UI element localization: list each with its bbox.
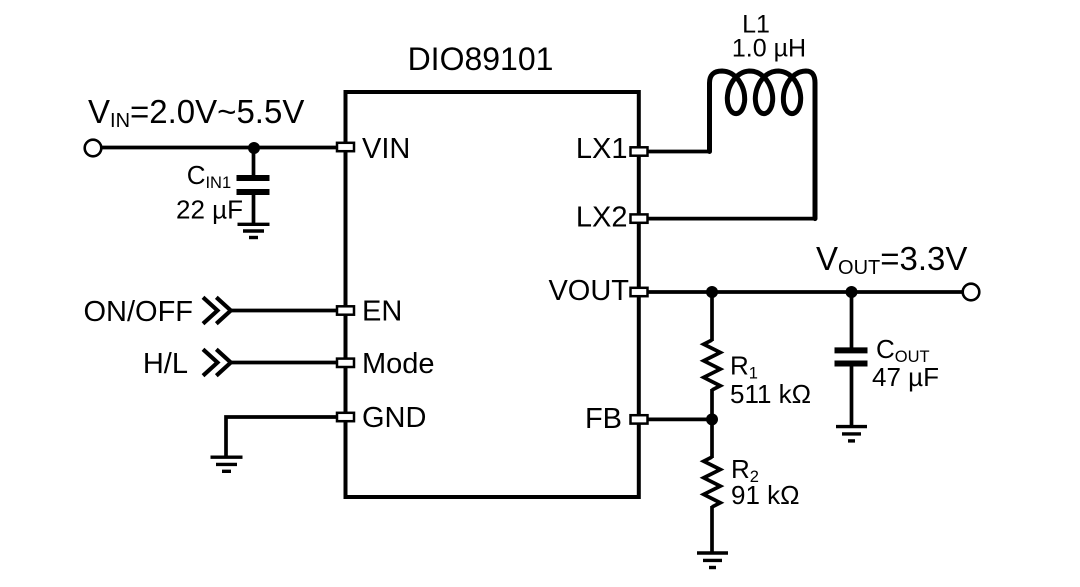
pin LX2	[631, 214, 648, 222]
svg-text:R1: R1	[730, 351, 758, 383]
wire to EN pin	[230, 309, 337, 313]
svg-text:FB: FB	[585, 403, 622, 435]
node VOUT-R1 junction	[706, 286, 718, 298]
svg-text:EN: EN	[362, 296, 402, 328]
resistor R2	[704, 457, 721, 507]
svg-text:H/L: H/L	[143, 348, 188, 380]
wire VOUT to COUT	[850, 292, 854, 348]
svg-text:VIN: VIN	[362, 133, 410, 165]
ground under R2	[697, 553, 728, 568]
svg-text:91 kΩ: 91 kΩ	[731, 480, 800, 510]
svg-text:47 µF: 47 µF	[872, 362, 939, 392]
wire input to VIN	[102, 146, 337, 150]
wire FB pin to divider	[649, 418, 713, 422]
inductor L1 coil	[710, 71, 816, 219]
node VOUT-COUT junction	[846, 286, 858, 298]
svg-text:GND: GND	[362, 402, 426, 434]
output terminal circle	[963, 284, 980, 301]
pin VOUT	[631, 288, 648, 296]
capacitor CIN1	[237, 178, 270, 224]
svg-text:511 kΩ: 511 kΩ	[730, 379, 811, 409]
wire junction to CIN1	[252, 148, 256, 176]
chevron EN input	[203, 297, 231, 323]
wire VOUT to R1	[710, 292, 714, 341]
wire FB node to R2	[710, 419, 714, 458]
svg-text:VOUT: VOUT	[548, 275, 629, 307]
pin EN	[337, 306, 354, 314]
svg-text:ON/OFF: ON/OFF	[83, 296, 193, 328]
pin LX1	[631, 147, 648, 155]
ground under COUT	[836, 427, 867, 441]
svg-text:LX2: LX2	[576, 202, 628, 234]
svg-text:Mode: Mode	[362, 348, 435, 380]
svg-text:22 µF: 22 µF	[176, 194, 243, 224]
wire R1 to FB node	[710, 389, 714, 419]
wire R2 to ground	[710, 506, 714, 552]
svg-text:LX1: LX1	[576, 133, 628, 165]
pin Mode	[337, 359, 354, 367]
svg-text:1.0 µH: 1.0 µH	[732, 35, 806, 63]
IC U1 DIO89101 body	[346, 92, 639, 497]
wire LX1 to inductor	[649, 150, 710, 154]
node FB junction	[706, 413, 718, 425]
svg-text:VIN=2.0V~5.5V: VIN=2.0V~5.5V	[88, 93, 304, 132]
svg-text:VOUT=3.3V: VOUT=3.3V	[816, 240, 967, 279]
resistor R1	[704, 340, 721, 390]
chevron Mode input	[203, 349, 231, 375]
node VIN junction	[248, 142, 260, 154]
ground under CIN1	[238, 224, 270, 237]
capacitor COUT	[835, 350, 868, 426]
wire GND pin to ground	[226, 417, 336, 456]
svg-text:DIO89101: DIO89101	[408, 41, 554, 77]
wire inductor to LX2	[649, 217, 816, 221]
svg-text:CIN1: CIN1	[187, 160, 231, 192]
wire to Mode pin	[230, 361, 337, 365]
ground at GND pin	[211, 457, 243, 471]
wire VOUT rail	[649, 290, 963, 294]
pin FB	[631, 415, 648, 423]
input terminal circle	[85, 140, 102, 157]
pin VIN	[337, 143, 354, 151]
pin GND	[337, 413, 354, 421]
